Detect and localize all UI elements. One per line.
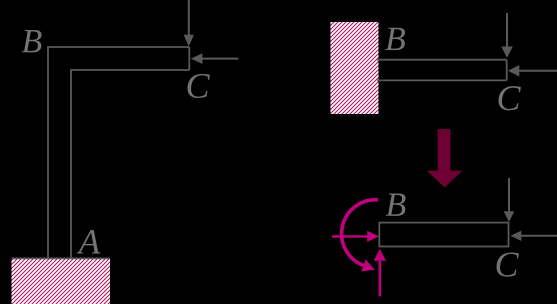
vertical force arrow at C (free body) [504,178,515,222]
horizontal force arrow at C (frame) [191,53,239,64]
horizontal force arrow at C (cantilever) [508,65,557,77]
free-body beam B-C rectangle [379,223,508,247]
horizontal force arrow at C (free body) [511,231,557,241]
cantilever beam B-C top line [377,59,507,61]
frame member end closure at C [188,47,190,70]
vertical reaction arrow at B [374,249,386,297]
label C (frame) [188,74,210,98]
moment couple arc at B [342,200,378,272]
vertical force arrow at C (frame) [184,0,194,47]
frame member A-B-C inner line [71,70,189,258]
label C (free body) [497,252,519,276]
label B (free body) [386,194,406,216]
wall support block at B (hatched) [331,22,379,114]
frame member A-B-C outer line [48,47,189,258]
horizontal reaction arrow at B [332,231,379,242]
label C (cantilever) [499,86,521,110]
cantilever beam B-C bottom line [377,79,507,81]
label A (frame) [77,230,101,253]
fixed support block at A (hatched) [12,258,111,304]
cantilever beam end closure at C [506,60,508,81]
vertical force arrow at C (cantilever) [501,13,513,58]
label B (cantilever) [385,28,405,50]
label B (frame) [22,30,42,52]
implication arrow (big down arrow) [427,129,463,187]
